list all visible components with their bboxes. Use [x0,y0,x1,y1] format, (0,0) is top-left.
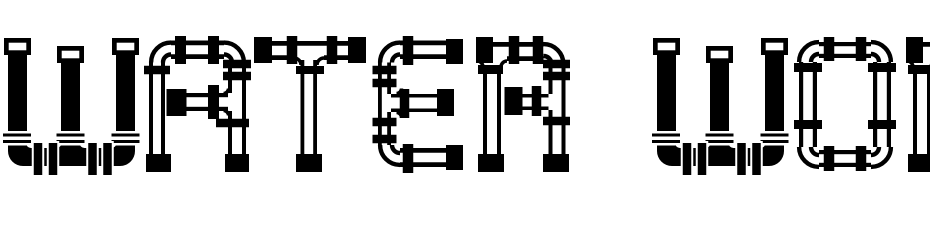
T junction flange [296,66,324,74]
A crossbar pipe [187,93,229,97]
W2 coupling a [681,141,694,177]
W1 cap2 [57,46,84,63]
E flange a [373,66,397,75]
O top pipe [819,42,871,46]
W1 flange2 [54,131,87,146]
R1 junction fillet right [501,61,507,67]
W2 junction fillet right [729,143,734,148]
R1 right flange 3 [543,117,570,126]
O flange right b [868,120,896,129]
R1 coupling b [533,36,544,64]
E elbow tl [380,43,400,63]
W1 coupling d [101,141,114,177]
W2 flange2 [703,131,736,146]
O coupling bottom b [856,146,867,171]
A crossbar fillet bottom [224,111,229,116]
A elbow tr [224,43,244,63]
E elbow bl [380,145,400,165]
A right flange 3 [216,119,249,128]
T coupling b [327,36,338,64]
R2 top pipe [923,42,930,47]
E top cap [446,39,463,64]
A crossbar block [167,89,187,116]
A top coupling b [208,36,219,64]
W2 coupling d [750,141,763,177]
W2 cap1 [653,38,680,55]
E top arm [400,41,446,46]
A crossbar coupling [208,85,219,119]
E bottom coupling [403,144,414,173]
W1 coupling b [47,141,60,177]
R2 left pipe [913,67,917,155]
O flange right a [868,63,896,72]
A left pipe [149,63,153,155]
R1 crossbar block [505,87,523,115]
T stem [301,60,305,154]
T top pipe bottom wall [272,55,294,60]
W1 bottom pipe [8,148,135,166]
R1 crossbar coupling [532,86,542,116]
A right flange 1 [223,60,251,69]
W2 pipe3 [765,54,784,153]
O coupling top b [856,37,867,61]
W2 junction fillet left [706,143,711,148]
W1 flange1 [1,131,34,146]
T top pipe top wall [272,41,348,46]
O coupling top a [824,37,835,61]
T junction fillet left [294,58,301,65]
E mid cap [437,89,454,116]
A elbow tl [151,43,171,63]
O elbow br [871,147,891,167]
O flange left b [794,120,822,129]
E top coupling [403,36,414,65]
E bottom cap [446,145,463,170]
W1 coupling a [32,141,45,177]
E left pipe [378,63,382,146]
E mid fillet bottom [397,113,402,118]
O flange left a [794,63,822,72]
W1 cap3 [112,38,139,55]
W2 cap3 [761,38,788,55]
A foot right [225,154,249,172]
E mid arm [391,94,437,98]
W1 coupling c [86,141,99,177]
A top coupling a [175,36,186,64]
R1 left pipe [483,67,487,155]
O left pipe [799,62,803,147]
R1 left junction flange [478,65,503,74]
E flange d [373,135,397,144]
E flange c [373,118,397,127]
R2 end cap [906,37,923,63]
W2 flange3 [758,131,791,146]
A foot left [146,154,171,172]
R2 left junction flange [908,65,930,74]
W1 elbow br [120,148,135,166]
W1 cap1 [4,38,31,55]
O elbow bl [799,147,819,167]
R1 foot right [543,154,569,172]
W2 pipe1 [657,54,676,153]
O right pipe [873,62,877,147]
E flange b [373,79,397,88]
W2 elbow bl [657,148,672,166]
R1 right flange 2 [543,72,570,81]
A right pipe [228,63,232,94]
W2 flange1 [650,131,683,146]
O elbow tl [799,42,819,62]
E mid fillet top [397,89,402,94]
R1 elbow tr [544,44,564,64]
T foot [296,154,322,172]
W1 pipe1 [8,54,27,153]
W2 elbow br [769,148,784,166]
A top pipe [171,41,224,46]
R2 foot left [908,154,930,172]
T end cap right [348,37,366,63]
R1 crossbar pipe [523,94,549,98]
E bottom arm [400,148,446,153]
R1 right pipe [549,64,553,94]
E mid coupling [400,89,410,118]
R1 top pipe [493,42,544,47]
W1 pipe3 [116,54,135,153]
W1 junction fillet right [80,143,85,148]
A right flange 2 [223,72,251,81]
T junction fillet right [317,58,324,65]
W1 junction fillet left [57,143,62,148]
R1 end cap [476,37,493,63]
W2 pipe2 [710,62,729,166]
W2 bottom pipe [657,148,784,166]
O elbow tr [871,42,891,62]
R2 junction fillet left [907,61,913,67]
W2 coupling b [696,141,709,177]
R1 right flange 1 [543,60,570,69]
T end cap left [254,37,272,63]
W2 cap2 [706,46,733,63]
R1 junction fillet left [477,61,483,67]
W1 flange3 [109,131,142,146]
A crossbar fillet top [224,89,229,94]
W2 coupling c [735,141,748,177]
O bottom pipe [819,150,871,154]
W1 elbow bl [8,148,23,166]
A left flange [144,66,170,75]
R1 coupling a [509,36,520,64]
T coupling a [287,36,298,64]
O coupling bottom a [824,146,835,171]
W1 pipe2 [61,62,80,166]
R1 foot left [478,154,504,172]
